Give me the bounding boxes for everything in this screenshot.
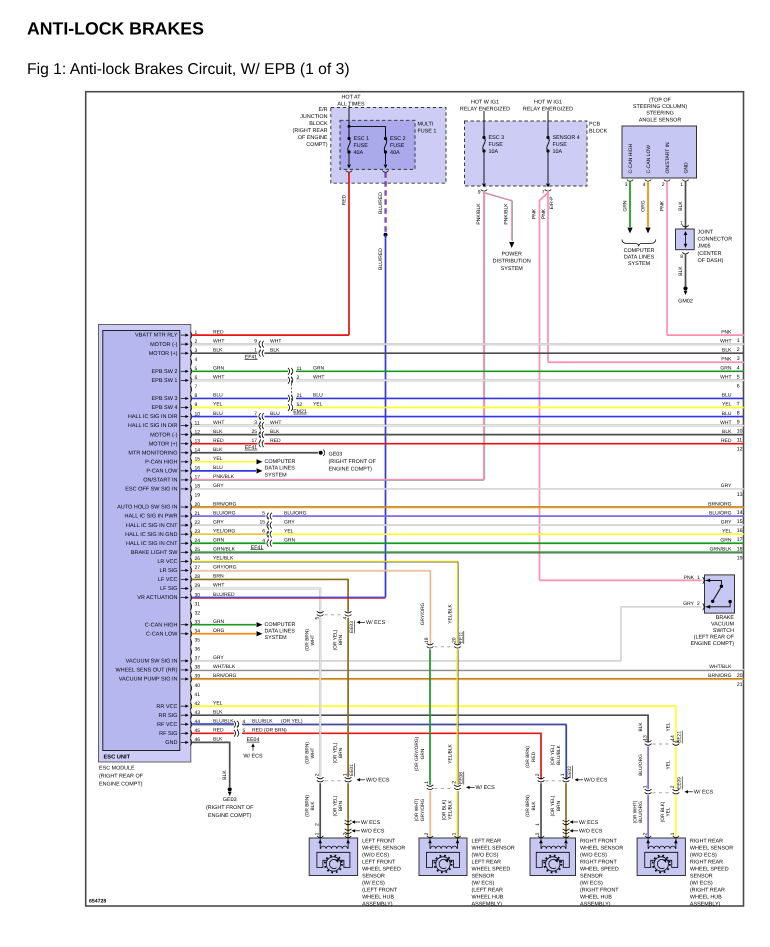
svg-text:19: 19 (424, 637, 430, 643)
wire row 27 GRY/ORG LR SIG turning down to left rear sensor (192, 570, 430, 643)
svg-text:1: 1 (342, 773, 348, 776)
ESC unit pin 36 (190, 648, 191, 655)
svg-text:E/R-P: E/R-P (549, 197, 555, 210)
svg-text:(LEFT REAR: (LEFT REAR (472, 887, 503, 893)
svg-text:ASSEMBLY): ASSEMBLY) (472, 901, 503, 907)
fuse SENSOR 4 10A (547, 111, 549, 138)
ESC unit pin 38 (190, 667, 191, 674)
svg-text:SENSOR: SENSOR (362, 873, 385, 879)
ESC unit pin 10 (190, 413, 191, 420)
svg-text:ASSEMBLY): ASSEMBLY) (362, 901, 393, 907)
svg-text:BLK: BLK (678, 266, 684, 276)
svg-text:YEL/BLK: YEL/BLK (447, 603, 453, 623)
svg-text:2: 2 (535, 832, 541, 835)
wire row 45 RED RF SIG via EE04 to right front sensor (192, 732, 234, 734)
ESC unit pin 26 (190, 558, 191, 565)
svg-text:16: 16 (737, 528, 743, 534)
svg-text:ENGINE COMPT): ENGINE COMPT) (691, 641, 735, 647)
svg-text:OF DASH): OF DASH) (698, 258, 724, 264)
svg-text:SENSOR: SENSOR (690, 873, 713, 879)
svg-text:2: 2 (642, 832, 648, 835)
svg-text:2: 2 (452, 781, 458, 784)
ESC unit pin 32 (190, 612, 191, 619)
wire row 34 ORG C-CAN LOW to computer data lines (192, 633, 256, 635)
wire GRY from vacuum switch pin 2 to ESC row 37 (621, 607, 702, 661)
svg-text:FUSE: FUSE (553, 142, 568, 148)
svg-text:SYSTEM: SYSTEM (265, 635, 288, 641)
svg-text:(OR WHT): (OR WHT) (632, 800, 638, 823)
svg-text:WHEEL HUB: WHEEL HUB (472, 894, 504, 900)
svg-text:WHEEL SPEED: WHEEL SPEED (362, 866, 401, 872)
svg-text:13: 13 (642, 735, 648, 741)
svg-text:(OR BRN): (OR BRN) (304, 629, 310, 651)
ESC unit pin 7 (190, 386, 191, 393)
svg-text:12: 12 (737, 447, 743, 453)
svg-text:STEERING COLUMN): STEERING COLUMN) (633, 104, 687, 110)
svg-text:EPB SW 3: EPB SW 3 (152, 396, 178, 402)
svg-text:(LEFT REAR OF: (LEFT REAR OF (694, 634, 735, 640)
svg-text:CONNECTOR: CONNECTOR (698, 237, 733, 243)
svg-text:ESC MODULE: ESC MODULE (99, 766, 135, 772)
wire rows 10-13 via EF41 to right edge (192, 416, 258, 418)
svg-text:ORG: ORG (641, 200, 647, 212)
svg-text:RF SIG: RF SIG (159, 731, 177, 737)
svg-text:GRY/ORG: GRY/ORG (420, 602, 426, 625)
ESC unit pin 13 (190, 440, 191, 447)
svg-text:ESC 2: ESC 2 (390, 136, 406, 142)
svg-text:WHEEL SPEED: WHEEL SPEED (472, 866, 511, 872)
svg-text:2: 2 (662, 182, 665, 188)
svg-text:BLK: BLK (722, 347, 732, 353)
svg-text:DATA LINES: DATA LINES (624, 254, 655, 260)
svg-text:(OR BLK): (OR BLK) (660, 801, 666, 822)
svg-text:10A: 10A (489, 149, 499, 155)
svg-text:1: 1 (424, 781, 430, 784)
svg-text:WHEEL HUB: WHEEL HUB (690, 894, 722, 900)
svg-text:RED: RED (531, 751, 537, 762)
vacuum switch pin 2 GRY (703, 603, 704, 610)
svg-text:2: 2 (737, 347, 740, 353)
wire row 42 YEL RR VCC turning down to right rear sensor (192, 706, 676, 742)
ESC unit pin 34 (190, 630, 191, 637)
svg-text:(OR BRN): (OR BRN) (304, 795, 310, 817)
ESC unit pin 43 (190, 712, 191, 719)
svg-text:DATA LINES: DATA LINES (265, 466, 296, 472)
fuse ESC2 output to connector (385, 152, 387, 164)
ESC unit pin 1 (190, 332, 191, 339)
wire PNK into vacuum switch pin 1 (540, 579, 702, 581)
steering angle sensor box (622, 126, 697, 178)
wire BRN segment into sensor 1 (347, 783, 349, 838)
svg-text:14: 14 (670, 735, 676, 741)
svg-text:WHEEL SPEED: WHEEL SPEED (580, 866, 619, 872)
svg-text:PNK: PNK (660, 200, 666, 211)
ground GE03 bottom (228, 787, 232, 791)
svg-text:C-CAN HIGH: C-CAN HIGH (628, 143, 634, 173)
svg-text:HOT W IG1: HOT W IG1 (471, 99, 499, 105)
svg-text:4: 4 (262, 538, 265, 544)
svg-text:GRN/BLK: GRN/BLK (710, 547, 733, 553)
svg-text:PNK/BLK: PNK/BLK (476, 203, 482, 225)
svg-text:2: 2 (314, 823, 320, 826)
svg-text:W/O ECS: W/O ECS (366, 778, 390, 784)
svg-text:EPB SW 1: EPB SW 1 (152, 378, 178, 384)
inline connector EF41 rows 10-13 (259, 418, 261, 443)
svg-text:3: 3 (625, 182, 628, 188)
svg-text:3: 3 (737, 356, 740, 362)
svg-text:WHEEL SENSOR: WHEEL SENSOR (690, 845, 733, 851)
svg-text:4: 4 (195, 357, 198, 363)
svg-text:(OR BRN): (OR BRN) (525, 746, 531, 768)
svg-text:W/ ECS: W/ ECS (579, 820, 599, 826)
svg-text:OF ENGINE: OF ENGINE (298, 135, 328, 141)
svg-text:GRY: GRY (284, 519, 295, 525)
svg-text:(RIGHT FRONT OF: (RIGHT FRONT OF (329, 459, 377, 465)
svg-text:W/O ECS: W/O ECS (361, 829, 385, 835)
svg-text:C-CAN HIGH: C-CAN HIGH (145, 622, 178, 628)
svg-text:1: 1 (314, 832, 320, 835)
svg-text:(W/ ECS): (W/ ECS) (472, 880, 495, 886)
svg-text:2: 2 (670, 785, 676, 788)
svg-text:10A: 10A (553, 149, 563, 155)
ESC unit pin 29 (190, 585, 191, 592)
svg-text:POWER: POWER (502, 252, 522, 258)
svg-text:SYSTEM: SYSTEM (628, 261, 651, 267)
svg-text:13: 13 (737, 492, 743, 498)
svg-text:FUSE: FUSE (489, 142, 504, 148)
svg-text:WHT: WHT (270, 338, 281, 344)
svg-text:(OR WHT): (OR WHT) (414, 798, 420, 821)
svg-text:41: 41 (195, 692, 201, 698)
ESC unit pin 12 (190, 431, 191, 438)
svg-text:25: 25 (251, 429, 257, 435)
svg-text:HALL IC SIG IN CNT: HALL IC SIG IN CNT (126, 523, 178, 529)
ESC unit outer box (99, 325, 191, 763)
svg-text:(OR YEL): (OR YEL) (550, 744, 556, 765)
ESC unit inner box (103, 331, 180, 751)
svg-text:15: 15 (737, 519, 743, 525)
svg-text:EPB SW 2: EPB SW 2 (152, 369, 178, 375)
inline connector EE01 pins 2 and 1 (325, 780, 344, 782)
svg-text:GND: GND (683, 162, 689, 174)
wire PNK/BLK branch to power distribution system (484, 193, 512, 241)
svg-text:JM05: JM05 (698, 244, 711, 250)
wire row 16 BLU P-CAN LOW to computer data lines (192, 470, 256, 472)
svg-text:GRY/ORG: GRY/ORG (213, 565, 237, 571)
svg-text:40A: 40A (390, 150, 400, 156)
svg-text:Fig 1: Anti-lock Brakes Circui: Fig 1: Anti-lock Brakes Circuit, W/ EPB … (27, 61, 350, 78)
ESC unit pin 42 (190, 703, 191, 710)
svg-text:7: 7 (542, 190, 545, 196)
svg-text:BRN: BRN (338, 800, 344, 811)
svg-text:8: 8 (737, 411, 740, 417)
svg-text:W/ ECS: W/ ECS (476, 785, 496, 791)
ESC unit pin 41 (190, 694, 191, 701)
wheel sensor 1 left front (309, 838, 357, 876)
wire row 37 GRY vacuum switch signal (192, 660, 621, 662)
svg-text:17: 17 (737, 537, 743, 543)
ground GM02 (683, 286, 687, 290)
svg-text:FUSE 1: FUSE 1 (418, 128, 437, 134)
wire BLK into sensor 3 (540, 783, 542, 838)
ESC unit pin 46 (190, 739, 191, 746)
wire row 43 BLK RR SIG turning down to right rear sensor (192, 715, 648, 742)
svg-text:BLU/ORG: BLU/ORG (638, 754, 644, 776)
svg-text:(OR YEL): (OR YEL) (332, 629, 338, 650)
wire row 14 BLK to ground GE03 (192, 452, 318, 454)
svg-text:YEL: YEL (284, 528, 294, 534)
svg-text:EE21: EE21 (677, 731, 683, 743)
svg-text:BLK: BLK (678, 201, 684, 211)
svg-text:654728: 654728 (89, 899, 106, 905)
wire GRN C-CAN HIGH to computer data lines (629, 181, 631, 227)
svg-text:HALL IC SIG IN CNT: HALL IC SIG IN CNT (126, 541, 178, 547)
joint connector JM05 box (676, 229, 695, 250)
svg-text:LEFT FRONT: LEFT FRONT (362, 838, 396, 844)
svg-text:BRN: BRN (556, 800, 562, 811)
svg-text:(OR YEL): (OR YEL) (550, 795, 556, 816)
ESC unit pin 3 (190, 350, 191, 357)
svg-text:EE11: EE11 (458, 631, 464, 643)
ESC unit pin 45 (190, 730, 191, 737)
svg-text:STEERING: STEERING (646, 111, 674, 117)
wire row 18 GRY to right edge (192, 488, 744, 490)
svg-text:RR SIG: RR SIG (159, 713, 178, 719)
svg-text:FUSE: FUSE (390, 143, 405, 149)
wheel sensor 1 left front wires WHT and BRN (319, 612, 321, 614)
svg-text:C-CAN LOW: C-CAN LOW (146, 631, 178, 637)
svg-text:YEL/BLK: YEL/BLK (447, 743, 453, 763)
wire row 46 BLK GND down to ground GE03 (192, 742, 230, 787)
svg-text:GRN: GRN (284, 537, 296, 543)
inline connector EE03 pins 5 and 4 (325, 614, 344, 616)
fuse ESC1 output to connector (348, 152, 350, 164)
svg-text:RED: RED (341, 194, 347, 205)
svg-text:YEL/BLK: YEL/BLK (447, 799, 453, 819)
wire row 33 GRN C-CAN HIGH to computer data lines (192, 624, 256, 626)
svg-text:YEL: YEL (666, 722, 672, 731)
svg-text:BLU/BLK: BLU/BLK (252, 718, 273, 724)
svg-text:LR VCC: LR VCC (157, 559, 177, 565)
svg-text:(LEFT FRONT: (LEFT FRONT (362, 887, 398, 893)
svg-text:(RIGHT REAR OF: (RIGHT REAR OF (99, 774, 144, 780)
wire BRN segment right (347, 618, 349, 777)
svg-text:MOTOR (-): MOTOR (-) (150, 342, 178, 348)
svg-text:1: 1 (670, 832, 676, 835)
svg-text:W/ ECS: W/ ECS (243, 753, 263, 759)
svg-text:SYSTEM: SYSTEM (265, 472, 288, 478)
svg-text:(RIGHT REAR: (RIGHT REAR (690, 887, 725, 893)
svg-text:VACUUM PUMP SIG IN: VACUUM PUMP SIG IN (119, 677, 178, 683)
svg-text:ESC UNIT: ESC UNIT (104, 754, 131, 760)
svg-text:EPB SW 4: EPB SW 4 (152, 405, 178, 411)
svg-text:WHT/BLK: WHT/BLK (709, 664, 732, 670)
svg-text:DISTRIBUTION: DISTRIBUTION (493, 259, 531, 265)
svg-text:WHEEL SENSOR: WHEEL SENSOR (362, 845, 405, 851)
multi fuse 1 inner box (340, 120, 415, 169)
svg-text:MOTOR (+): MOTOR (+) (149, 351, 178, 357)
svg-text:ESC OFF SW SIG IN: ESC OFF SW SIG IN (125, 487, 177, 493)
svg-text:(W/O ECS): (W/O ECS) (472, 852, 499, 858)
wire row 25 GRN/BLK to right edge (192, 551, 744, 553)
svg-text:32: 32 (195, 610, 201, 616)
svg-text:HALL IC SIG IN DIR: HALL IC SIG IN DIR (128, 423, 178, 429)
svg-text:MULTI: MULTI (418, 121, 434, 127)
svg-text:GND: GND (165, 740, 177, 746)
svg-text:(TOP OF: (TOP OF (649, 98, 671, 104)
svg-text:BLU/ORG: BLU/ORG (709, 510, 732, 516)
fuse ESC 3 10A (483, 111, 485, 138)
wire row 15 YEL P-CAN HIGH to computer data lines (192, 461, 256, 463)
svg-text:ON/START IN: ON/START IN (665, 142, 671, 174)
svg-text:HOT W IG1: HOT W IG1 (534, 99, 562, 105)
svg-text:(CENTER: (CENTER (698, 251, 722, 257)
svg-text:COMPUTER: COMPUTER (265, 622, 296, 628)
svg-text:COMPT): COMPT) (306, 142, 327, 148)
svg-text:MOTOR (-): MOTOR (-) (150, 432, 178, 438)
svg-text:GRY/ORG: GRY/ORG (420, 798, 426, 821)
wire row 20 BRN/ORG to right edge (192, 506, 744, 508)
ESC unit pin 8 (190, 395, 191, 402)
svg-text:(RIGHT FRONT: (RIGHT FRONT (580, 887, 619, 893)
svg-text:(W/O ECS): (W/O ECS) (580, 852, 607, 858)
ESC unit pin 44 (190, 721, 191, 728)
svg-text:11: 11 (297, 366, 302, 372)
svg-text:(OR YEL): (OR YEL) (332, 795, 338, 816)
svg-text:RELAY ENERGIZED: RELAY ENERGIZED (460, 106, 510, 112)
svg-text:1: 1 (452, 832, 458, 835)
svg-text:PCB: PCB (589, 122, 600, 128)
svg-text:YEL: YEL (313, 402, 323, 408)
svg-text:ESC 3: ESC 3 (489, 135, 505, 141)
svg-text:ASSEMBLY): ASSEMBLY) (580, 901, 611, 907)
fuse ESC 1 40A (348, 130, 350, 139)
svg-text:ANGLE SENSOR: ANGLE SENSOR (639, 117, 682, 123)
wire PNK ON/START to right edge row 1 (666, 181, 668, 335)
E/R junction block outer box (331, 108, 446, 184)
svg-text:WHT: WHT (720, 420, 731, 426)
inline connector EM21 rows 5-9 (291, 373, 293, 406)
svg-text:8: 8 (680, 254, 683, 260)
svg-text:ASSEMBLY): ASSEMBLY) (690, 901, 721, 907)
wheel sensor 4 right rear (637, 838, 685, 876)
wire BLK to ground GM02 (685, 254, 687, 287)
ESC unit pin 6 (190, 377, 191, 384)
svg-text:BLU: BLU (270, 411, 280, 417)
svg-text:BLU: BLU (722, 393, 732, 399)
ESC unit pin 21 (190, 513, 191, 520)
ESC unit pin 27 (190, 567, 191, 574)
wire YEL segment (675, 747, 677, 790)
svg-text:WHT: WHT (270, 420, 281, 426)
svg-text:2: 2 (297, 375, 300, 381)
svg-text:(W/O ECS): (W/O ECS) (690, 852, 717, 858)
ESC unit pin 31 (190, 603, 191, 610)
svg-text:4: 4 (243, 719, 246, 725)
ESC unit pin 17 (190, 477, 191, 484)
wire row 1 RED pin1 to fuse drop (192, 334, 349, 336)
svg-text:BLU/ORG: BLU/ORG (638, 801, 644, 823)
svg-text:2: 2 (424, 832, 430, 835)
svg-text:BLK: BLK (310, 801, 316, 811)
ESC unit pin 28 (190, 576, 191, 583)
svg-text:(W/ ECS): (W/ ECS) (580, 880, 603, 886)
wire row 38 WHT/BLK wheel sens out to right edge (192, 669, 744, 671)
svg-text:RIGHT REAR: RIGHT REAR (690, 859, 723, 865)
wire PNK from SENSOR4 fuse to brake vacuum switch (540, 193, 549, 581)
svg-text:MOTOR (+): MOTOR (+) (149, 441, 178, 447)
svg-text:1: 1 (737, 338, 740, 344)
wire row 44 BLU/BLK RF VCC via EE04 to right front sensor (192, 723, 234, 725)
svg-text:BLU/RED: BLU/RED (378, 248, 384, 270)
svg-text:5: 5 (262, 511, 265, 517)
svg-text:GE03: GE03 (223, 797, 237, 803)
svg-text:9: 9 (254, 339, 257, 345)
svg-text:(W/O ECS): (W/O ECS) (362, 852, 389, 858)
wire WHT segment to EE01 (319, 618, 321, 777)
svg-text:BLOCK: BLOCK (589, 129, 608, 135)
joint connector lower pin 8 (682, 252, 688, 254)
wire row 39 BRN/ORG vacuum pump sig to right edge (192, 678, 744, 680)
wire YEL into sensor 4 (675, 795, 677, 838)
wire GRY/ORG into sensor 2 (429, 791, 431, 838)
svg-text:EE02: EE02 (567, 766, 573, 778)
svg-text:1: 1 (535, 823, 541, 826)
svg-text:(OR BLK): (OR BLK) (442, 799, 448, 820)
svg-text:LF VCC: LF VCC (158, 577, 178, 583)
svg-text:19: 19 (195, 493, 201, 499)
svg-text:LEFT REAR: LEFT REAR (472, 838, 502, 844)
svg-text:VR ACTUATION: VR ACTUATION (137, 595, 177, 601)
svg-text:2: 2 (342, 832, 348, 835)
svg-text:W/ ECS: W/ ECS (361, 820, 381, 826)
svg-text:4: 4 (643, 182, 646, 188)
svg-text:HALL IC SIG IN GND: HALL IC SIG IN GND (125, 532, 177, 538)
brace under computer data lines arrows (622, 240, 656, 247)
wire row 28 BRN LF VCC turning down to left front sensor (192, 579, 348, 611)
svg-text:YEL: YEL (722, 528, 732, 534)
svg-text:JUNCTION: JUNCTION (300, 114, 327, 120)
svg-text:YEL: YEL (666, 807, 672, 816)
ESC unit pin 39 (190, 676, 191, 683)
brake vacuum switch box (705, 575, 735, 613)
svg-text:2: 2 (535, 773, 541, 776)
svg-text:1: 1 (254, 348, 257, 354)
diagram frame border (86, 92, 744, 906)
svg-text:PNK/BLK: PNK/BLK (504, 203, 510, 225)
wire row 17 PNK/BLK ON/START from ESC3 fuse (192, 479, 484, 481)
svg-text:WHEEL SENS OUT (RR): WHEEL SENS OUT (RR) (115, 668, 177, 674)
svg-text:5: 5 (243, 728, 246, 734)
svg-text:GRN: GRN (720, 537, 732, 543)
wire PNK row 4 to right edge (548, 361, 744, 363)
svg-text:BLU/RED: BLU/RED (378, 192, 384, 214)
svg-text:(OR BRN): (OR BRN) (304, 742, 310, 764)
wire row 29 WHT LF SIG turning down to left front sensor (192, 589, 320, 612)
svg-text:1: 1 (560, 773, 566, 776)
svg-text:1: 1 (680, 182, 683, 188)
wire row 30 BLU/RED VR actuation to fuse ESC2 drop (192, 596, 386, 598)
svg-text:VBATT MTR RLY: VBATT MTR RLY (135, 333, 178, 339)
svg-text:BRN: BRN (338, 634, 344, 645)
splice dot on BLU/RED wire (384, 233, 388, 237)
svg-text:21: 21 (297, 393, 303, 399)
wire row 8 BLU EPB SW3 with EM21 connector (192, 397, 288, 399)
svg-text:YEL: YEL (722, 402, 732, 408)
wire row 26 YEL/BLK LR VCC turning down to left rear sensor (192, 561, 458, 643)
svg-text:ENGINE COMPT): ENGINE COMPT) (99, 782, 143, 788)
svg-text:RED: RED (721, 438, 732, 444)
